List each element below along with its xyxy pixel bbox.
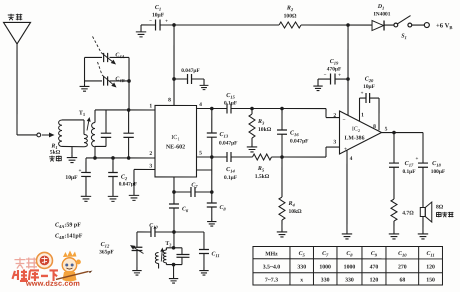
diode D1 IN4001 [372, 21, 384, 31]
wire pin 7 down [173, 177, 175, 192]
svg-text:R3: R3 [257, 119, 265, 126]
svg-text:3.5~4.0: 3.5~4.0 [263, 265, 281, 271]
svg-text:C19: C19 [330, 59, 339, 66]
capacitor C20 10uF bypass [360, 97, 366, 99]
svg-text:C8: C8 [219, 205, 226, 212]
svg-text:150: 150 [426, 278, 435, 284]
svg-text:1: 1 [149, 103, 152, 109]
svg-text:+: + [361, 92, 364, 97]
resistor R5 1.5k [252, 154, 271, 160]
node T2 top [172, 246, 176, 250]
resistor R3 10k [251, 109, 253, 115]
svg-text:10kΩ: 10kΩ [288, 209, 302, 215]
svg-text:C16: C16 [290, 131, 299, 138]
node top rail / pin8 branch [172, 23, 176, 27]
wire R1 top to T1 primary [62, 119, 84, 121]
ground at pin 4 [342, 231, 352, 239]
wire to input terminal [17, 134, 37, 136]
svg-text:8: 8 [373, 124, 376, 130]
ground at gang box [84, 81, 86, 83]
node C7 left [172, 190, 176, 194]
transformer T1 primary winding [83, 120, 85, 135]
svg-text:68: 68 [399, 278, 405, 284]
ground below R3 [247, 144, 257, 152]
wire ground to C1 [141, 24, 156, 26]
capacitor C13 0.047uF [211, 108, 213, 132]
transformer T2 primary [155, 252, 158, 263]
svg-text:IC1: IC1 [171, 134, 180, 142]
resistor 4.7ohm [391, 199, 397, 221]
svg-text:C11: C11 [211, 251, 219, 258]
svg-text:4: 4 [350, 156, 353, 162]
capacitor C19 470uF electrolytic [335, 78, 348, 80]
svg-text:470μF: 470μF [327, 67, 342, 73]
node R3 [250, 107, 254, 111]
svg-text:IN4001: IN4001 [374, 12, 391, 18]
svg-text:1000: 1000 [319, 265, 331, 271]
svg-text:T2: T2 [165, 241, 171, 247]
svg-text:C7: C7 [191, 182, 198, 189]
svg-text:R2: R2 [286, 6, 294, 13]
ground at C1 [140, 25, 142, 29]
svg-text:C12: C12 [101, 242, 110, 249]
ground decoupling [203, 79, 205, 83]
svg-text:C7: C7 [322, 251, 329, 258]
svg-text:3: 3 [333, 140, 336, 146]
antenna [4, 22, 31, 44]
svg-text:0.1μF: 0.1μF [224, 175, 238, 181]
svg-text:100Ω: 100Ω [284, 14, 297, 20]
svg-text:−: − [342, 117, 345, 123]
capacitor C17 0.1uF [393, 133, 395, 163]
svg-text:8Ω: 8Ω [436, 205, 444, 211]
svg-text:C6: C6 [182, 206, 189, 213]
svg-text:8: 8 [168, 97, 171, 103]
svg-text:0.047μF: 0.047μF [119, 181, 138, 187]
svg-text:120: 120 [370, 278, 379, 284]
wire LM386 output [382, 132, 424, 134]
svg-text:C15: C15 [226, 93, 235, 100]
svg-text:C13: C13 [220, 132, 229, 139]
svg-text:C20: C20 [365, 77, 374, 84]
input terminal circle [37, 133, 41, 137]
svg-text:C9: C9 [371, 251, 378, 258]
wire to R3 node [252, 108, 282, 110]
wire input bottom rail [86, 157, 155, 159]
ground below 4.7ohm [389, 231, 399, 239]
wire pin5 node down [211, 157, 213, 192]
svg-text:5: 5 [199, 150, 202, 156]
node decoupling branch [172, 77, 176, 81]
capacitor C1 10uF electrolytic [155, 19, 157, 30]
ground below C2 [108, 193, 118, 201]
watermark spear [56, 271, 89, 279]
svg-text:0.1μF: 0.1μF [402, 169, 416, 175]
wire NE602 pin 8 feed [173, 25, 175, 106]
wire node to NE602 pin 1 [95, 109, 155, 111]
watermark text 维库一下 [12, 269, 28, 281]
svg-text:IC2: IC2 [352, 127, 360, 134]
wire top rail to R2 [160, 24, 279, 26]
speaker 8ohm [420, 208, 425, 217]
node C19 [346, 77, 350, 81]
variable capacitor C4B [103, 76, 105, 85]
op-amp IC2 LM-386 [339, 111, 381, 154]
transformer T1 secondary winding [94, 110, 96, 123]
svg-text:C1: C1 [155, 5, 161, 12]
wire NE602 pin 3 to ground [134, 168, 155, 170]
svg-text:10μF: 10μF [363, 84, 375, 90]
svg-text:+: + [79, 168, 82, 174]
svg-text:365pF: 365pF [99, 249, 114, 255]
switch S1 [394, 23, 398, 27]
svg-text:C10: C10 [149, 223, 158, 230]
LM386 pin 4 line [346, 150, 348, 230]
variable capacitor C12 365pF [136, 232, 138, 247]
svg-text:5kΩ: 5kΩ [50, 150, 61, 156]
wire pin 6 stub [196, 169, 211, 171]
svg-text:T1: T1 [79, 110, 86, 116]
svg-text:0.1μF: 0.1μF [224, 100, 238, 106]
gang capacitor box outline [85, 56, 103, 58]
svg-text:C2: C2 [121, 174, 128, 181]
ground below R1 [71, 147, 73, 155]
svg-text:C4A:59 pF: C4A:59 pF [55, 222, 81, 229]
T2 tuning arrow [160, 252, 163, 262]
svg-text:C18: C18 [432, 161, 441, 168]
svg-text:+: + [338, 74, 341, 79]
transformer T2 secondary loop [166, 247, 173, 249]
node output [392, 131, 396, 135]
wire tank node down to T2 [173, 232, 175, 248]
node C16 [280, 107, 284, 111]
node osc tank top [172, 230, 176, 234]
capacitor 10uF electrolytic [85, 158, 87, 172]
capacitor C6 [173, 192, 175, 204]
capacitor C11 [199, 248, 209, 250]
ground below R4 [277, 229, 287, 237]
svg-text:270: 270 [398, 265, 407, 271]
capacitor C18 100uF electrolytic [422, 133, 424, 163]
svg-text:1000: 1000 [344, 265, 356, 271]
wire to LM386 pin 3 [282, 156, 326, 158]
svg-text:C11: C11 [426, 251, 434, 258]
svg-text:C17: C17 [405, 161, 414, 168]
svg-text:+: + [165, 19, 168, 24]
svg-text:4.7Ω: 4.7Ω [402, 211, 414, 217]
svg-text:0.047μF: 0.047μF [219, 140, 238, 146]
node C2 branch [111, 156, 115, 160]
capacitor C8 [211, 192, 213, 203]
svg-text:10kΩ: 10kΩ [258, 127, 272, 133]
node T2 bottom [172, 263, 176, 267]
svg-text:0.047μF: 0.047μF [181, 68, 200, 74]
antenna label 天线 [8, 14, 15, 21]
resistor R1 (5k gain pot coil) [59, 120, 62, 147]
svg-text:MHz: MHz [265, 252, 278, 258]
capacitor C15 0.1uF [226, 103, 228, 113]
node R4 branch [280, 155, 284, 159]
svg-text:www.dzsc.com: www.dzsc.com [25, 279, 80, 288]
svg-text:330: 330 [297, 265, 306, 271]
variable capacitor C4A [103, 53, 105, 62]
wiper arrow into R1 [42, 134, 49, 136]
svg-text:C10: C10 [398, 251, 407, 258]
svg-text:120: 120 [426, 265, 435, 271]
wire pin 4 rail [197, 107, 227, 109]
svg-text:330: 330 [345, 278, 354, 284]
svg-text:10μF: 10μF [65, 175, 78, 181]
ground below C12 [132, 267, 141, 275]
svg-text:2: 2 [333, 113, 336, 119]
svg-text:S1: S1 [401, 34, 407, 41]
watermark 我找 pale glyphs [14, 257, 25, 268]
svg-text:470: 470 [370, 265, 379, 271]
node padder bottom [127, 156, 131, 160]
component value table [253, 247, 443, 286]
wire R1/T1 bottom [62, 145, 84, 147]
svg-text:7~7.3: 7~7.3 [265, 278, 278, 284]
svg-text:C4A: C4A [115, 52, 124, 59]
capacitor C16 0.047uF [281, 109, 283, 130]
node pin4/C13 [210, 107, 214, 111]
resistor R2 100ohm [279, 22, 301, 28]
capacitor C10 [137, 231, 151, 233]
node at gang box output [127, 79, 131, 83]
wire tank top to C11 [174, 231, 204, 233]
svg-text:1.5kΩ: 1.5kΩ [255, 174, 270, 180]
wire supply node down [347, 25, 349, 115]
svg-text:LM-386: LM-386 [345, 136, 365, 142]
svg-text:C5: C5 [299, 251, 306, 258]
svg-text:C8: C8 [346, 251, 353, 258]
wire antenna down-lead [16, 43, 18, 135]
ground below C11 [199, 267, 208, 275]
svg-text:R5: R5 [257, 166, 265, 173]
capacitor C14 0.1uF [226, 152, 228, 162]
node T1 secondary bottom [93, 156, 97, 160]
resistor R4 10k [281, 157, 283, 197]
ground below speaker [418, 231, 428, 239]
gang dashed link and arrows [93, 36, 102, 52]
svg-text:−: − [324, 74, 327, 79]
svg-text:NE-602: NE-602 [166, 144, 185, 150]
svg-text:3: 3 [149, 163, 152, 169]
wire to LM386 pin 2 [282, 108, 326, 110]
wire pin 5 rail [196, 156, 226, 158]
watermark mascot [63, 250, 77, 257]
svg-text:+: + [416, 157, 419, 162]
supply terminal +6V [424, 23, 429, 28]
node junction at T1 top [127, 108, 131, 112]
svg-text:C4B:141pF: C4B:141pF [55, 233, 83, 240]
T1 tuning arrow [87, 121, 89, 130]
svg-text:330: 330 [321, 278, 330, 284]
ground below T2 [173, 265, 175, 276]
node C7 right [210, 190, 214, 194]
LM386 pin 1 line [359, 98, 361, 121]
capacitor C2 0.047uF [112, 158, 114, 172]
ground at pin 3 [129, 192, 139, 200]
node supply branch [346, 23, 350, 27]
svg-text:D1: D1 [377, 4, 385, 11]
capacitor C7 [174, 191, 191, 193]
svg-text:10μF: 10μF [152, 12, 165, 18]
svg-text:100μF: 100μF [431, 169, 446, 175]
capacitor 0.047uF decoupling [174, 78, 187, 80]
ground below C8 [207, 218, 216, 226]
svg-text:1: 1 [361, 113, 364, 119]
op-amp IC1 NE-602 [155, 105, 197, 177]
watermark emblem circle [36, 252, 52, 268]
wire R2 to supply node [301, 24, 372, 26]
svg-text:C4B: C4B [115, 76, 124, 83]
capacitor (padder) below node [128, 110, 130, 133]
wire gang box to T1 top node [128, 81, 130, 110]
svg-text:4: 4 [199, 102, 202, 108]
svg-text:R4: R4 [287, 201, 295, 208]
ground below 10uF [81, 193, 91, 201]
T1 tank capacitor [105, 110, 107, 133]
node pin5 [210, 155, 214, 159]
svg-text:C14: C14 [226, 167, 235, 174]
ground at C19 [317, 79, 319, 83]
svg-text:+6 VB: +6 VB [436, 23, 452, 31]
svg-text:x: x [300, 278, 303, 284]
svg-text:−: − [149, 19, 152, 24]
T2 tank capacitor branch [174, 247, 182, 249]
svg-text:5: 5 [385, 127, 388, 133]
wire T1 tank bottom [95, 145, 106, 147]
svg-text:2: 2 [149, 151, 152, 157]
svg-text:0.047μF: 0.047μF [290, 139, 309, 145]
